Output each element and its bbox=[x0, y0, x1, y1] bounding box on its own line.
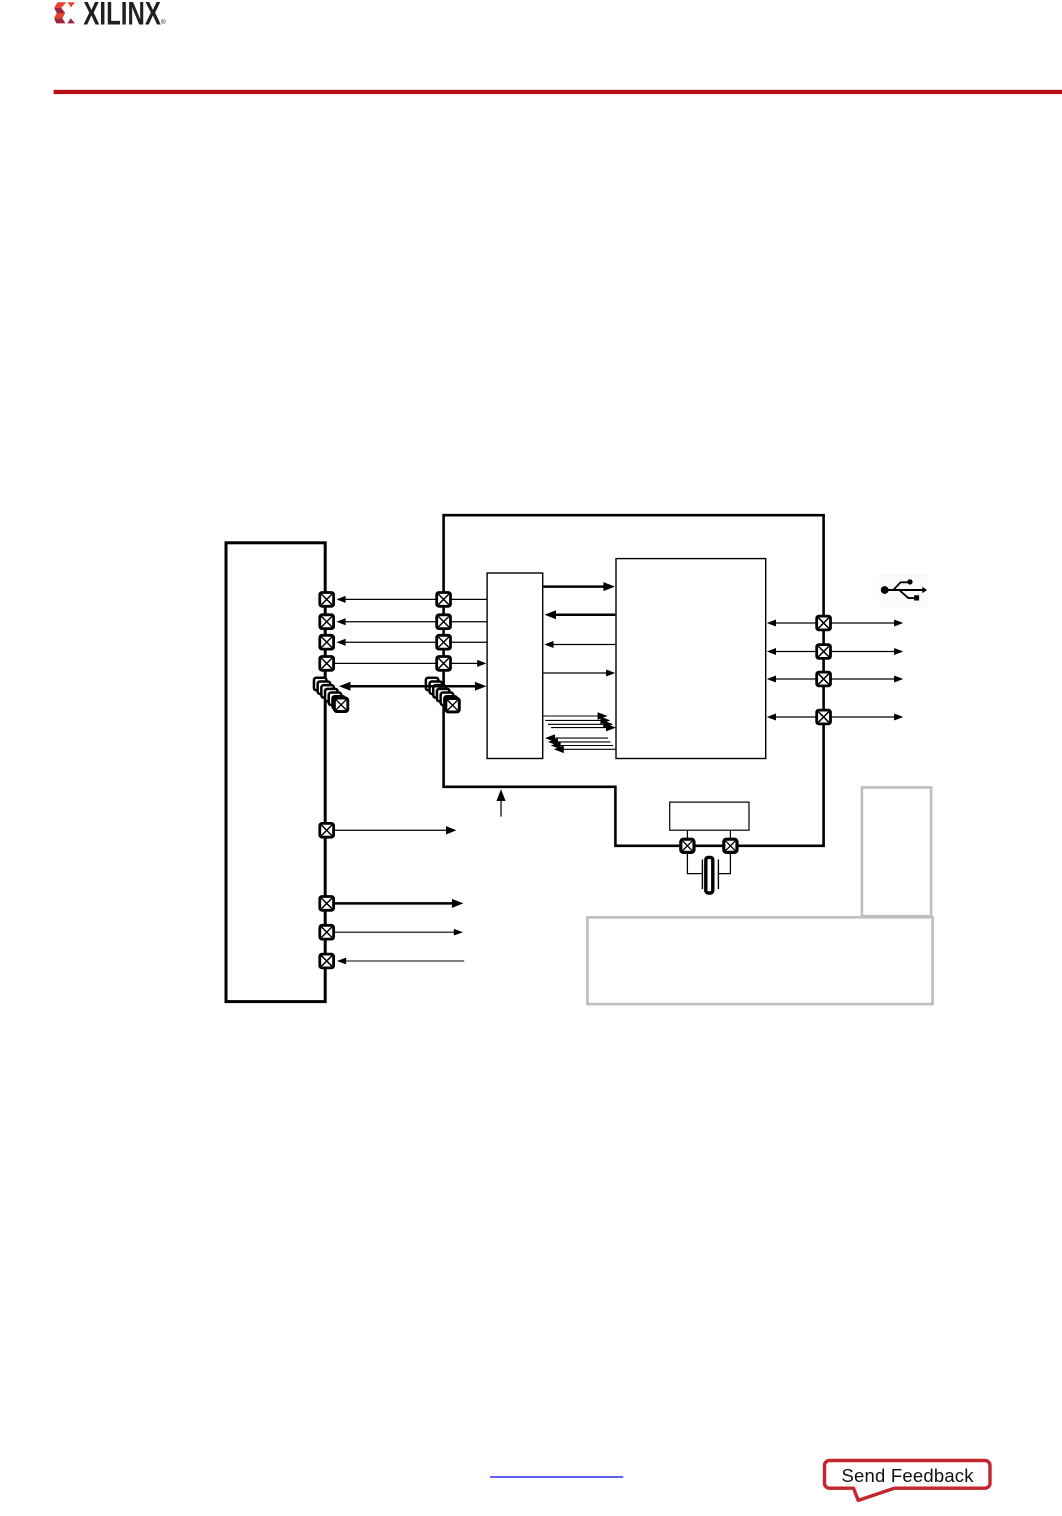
pad lower D bbox=[320, 954, 334, 968]
bus group right bbox=[544, 712, 617, 731]
pad osc2 bbox=[724, 839, 737, 852]
pad right row1 bbox=[817, 616, 831, 630]
pad lower A bbox=[320, 823, 334, 837]
footer link line bbox=[490, 1476, 623, 1478]
wire thin left bbox=[544, 641, 615, 648]
wire thick left bbox=[545, 610, 616, 619]
Xilinx logo mark bbox=[54, 2, 75, 23]
Xilinx logotype bbox=[83, 0, 166, 31]
gray box wide (board) bbox=[587, 917, 932, 1004]
top block outline (device) bbox=[444, 515, 824, 846]
wire row5 thick bus bbox=[339, 682, 486, 691]
oscillator stems bbox=[687, 831, 730, 839]
pad stack col1 bbox=[314, 678, 348, 712]
bus group left bbox=[545, 734, 616, 753]
pad lower B bbox=[320, 897, 334, 911]
pad stack col2 bbox=[426, 678, 459, 712]
crystal body bbox=[706, 857, 713, 893]
USB icon bbox=[879, 574, 928, 607]
pad osc1 bbox=[681, 839, 694, 852]
svg-text:®: ® bbox=[161, 18, 166, 26]
pad col2 row2 bbox=[437, 615, 451, 629]
small inner block bbox=[487, 573, 543, 759]
crystal plates bbox=[702, 860, 718, 890]
pad col2 row1 bbox=[437, 593, 451, 607]
oscillator label box bbox=[670, 802, 749, 830]
wire lower B thick bbox=[335, 899, 464, 908]
wire right row4 bbox=[767, 714, 904, 721]
pad right row4 bbox=[817, 710, 831, 724]
pad col1 row4 bbox=[320, 657, 334, 671]
svg-text:XILINX: XILINX bbox=[83, 0, 161, 31]
wire right row3 bbox=[767, 676, 904, 683]
left block bbox=[226, 543, 325, 1002]
pad col1 row3 bbox=[320, 635, 334, 649]
pad right row2 bbox=[817, 645, 831, 659]
pad right row3 bbox=[817, 672, 831, 686]
up arrow into block bbox=[496, 789, 505, 816]
header rule bbox=[54, 90, 1062, 94]
big inner block bbox=[616, 559, 766, 759]
send feedback bubble bbox=[825, 1461, 991, 1501]
wire row2 left bbox=[336, 618, 487, 625]
pad col1 row2 bbox=[320, 615, 334, 629]
wire lower C bbox=[335, 929, 463, 936]
gray box tall (DDR) bbox=[862, 787, 931, 916]
wire lower A bbox=[335, 826, 457, 834]
pad col2 row4 bbox=[437, 657, 451, 671]
wire row4 left bbox=[335, 660, 487, 667]
crystal wires bbox=[687, 853, 730, 874]
pad lower C bbox=[320, 925, 334, 939]
wire right row1 bbox=[767, 620, 904, 627]
wire thin right bbox=[543, 670, 615, 677]
pad col1 row1 bbox=[320, 593, 334, 607]
svg-text:Send Feedback: Send Feedback bbox=[842, 1465, 975, 1486]
wire mio thick right bbox=[543, 582, 615, 591]
wire row3 left bbox=[336, 639, 487, 646]
wire row1 left bbox=[336, 596, 487, 603]
pad col2 row3 bbox=[437, 635, 451, 649]
wire right row2 bbox=[767, 648, 904, 655]
wire lower D bbox=[337, 958, 464, 965]
